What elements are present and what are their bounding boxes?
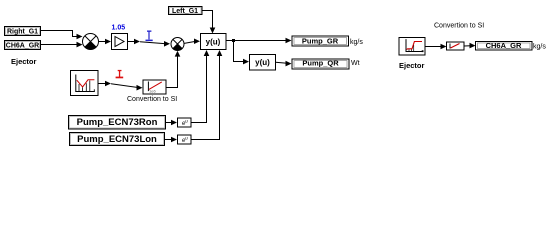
wire Left_G1 to F1 top bbox=[202, 11, 215, 34]
svg-text:Pump_QR: Pump_QR bbox=[302, 59, 339, 68]
sink block Pump_GR bbox=[292, 36, 349, 46]
svg-text:y(u): y(u) bbox=[206, 37, 221, 46]
wire Right_G1 to product P1 bbox=[41, 31, 83, 40]
svg-text:Right_G1: Right_G1 bbox=[7, 29, 38, 36]
test point badge red bbox=[116, 70, 124, 78]
wire C1 to product P2 bottom bbox=[166, 51, 180, 88]
svg-text:Wt: Wt bbox=[351, 60, 360, 67]
lookup table L1 bbox=[71, 71, 99, 96]
source block CH6A_GR bbox=[5, 41, 41, 50]
source block Right_G1 bbox=[5, 27, 41, 36]
svg-text:Pump_ECN73Lon: Pump_ECN73Lon bbox=[77, 134, 157, 145]
source block Pump_ECN73Lon bbox=[70, 133, 165, 146]
test point badge blue bbox=[146, 31, 153, 42]
wire L1 to conversion C1 bbox=[99, 81, 143, 91]
source block Pump_ECN73Ron bbox=[69, 116, 166, 130]
math block E1 exp bbox=[178, 118, 192, 127]
sink block Pump_QR bbox=[292, 59, 349, 69]
wire gain to product P2 bbox=[128, 39, 170, 47]
svg-text:CH6A_GR: CH6A_GR bbox=[6, 43, 39, 50]
product P1 bbox=[83, 34, 99, 50]
wire Lon to exp E2 bbox=[165, 137, 178, 143]
svg-text:y(u): y(u) bbox=[255, 58, 270, 67]
wire C2 to sink CH6A_GR bbox=[464, 43, 476, 49]
svg-text:CH6A_GR: CH6A_GR bbox=[486, 41, 522, 50]
svg-text:Convertion to SI: Convertion to SI bbox=[127, 96, 177, 103]
wire F2 to Pump_QR bbox=[276, 61, 292, 67]
svg-text:Pump_ECN73Ron: Pump_ECN73Ron bbox=[77, 117, 158, 128]
svg-text:Ejector: Ejector bbox=[399, 61, 425, 70]
svg-text:Left_G1: Left_G1 bbox=[172, 8, 198, 15]
svg-text:1.05: 1.05 bbox=[112, 25, 126, 32]
wire F1 to Pump_GR bbox=[226, 38, 292, 44]
fcn block F1 y(u) bbox=[201, 34, 227, 50]
wire E2 to F1 bottom bbox=[191, 50, 222, 140]
lookup table L2 Ejector bbox=[399, 38, 425, 56]
sink block CH6A_GR right bbox=[476, 41, 533, 50]
wire L2 to conversion C2 bbox=[425, 44, 447, 50]
svg-text:Ejector: Ejector bbox=[11, 57, 37, 66]
wire P1 to gain K1 bbox=[99, 39, 112, 45]
fcn block F2 y(u) bbox=[250, 55, 276, 71]
conversion block C1 bbox=[143, 80, 166, 94]
source block Left_G1 bbox=[169, 7, 203, 16]
conversion block C2 bbox=[447, 42, 465, 50]
product P2 bbox=[171, 38, 184, 51]
wire P2 to fcn F1 bbox=[184, 39, 201, 45]
svg-text:kg/s: kg/s bbox=[533, 44, 546, 51]
wire Ron to exp E1 bbox=[166, 120, 178, 126]
svg-text:Convertion to SI: Convertion to SI bbox=[434, 23, 484, 30]
wire E1 to F1 bottom bbox=[191, 50, 209, 123]
svg-text:kg/s: kg/s bbox=[350, 39, 363, 46]
gain K1 value 1.05 bbox=[112, 25, 128, 50]
wire CH6A_GR to product P1 bbox=[41, 42, 83, 48]
math block E2 exp bbox=[178, 135, 192, 144]
svg-text:1e6: 1e6 bbox=[149, 89, 156, 94]
svg-text:Pump_GR: Pump_GR bbox=[302, 36, 339, 45]
wire branch down to fcn F2 bbox=[232, 39, 249, 64]
